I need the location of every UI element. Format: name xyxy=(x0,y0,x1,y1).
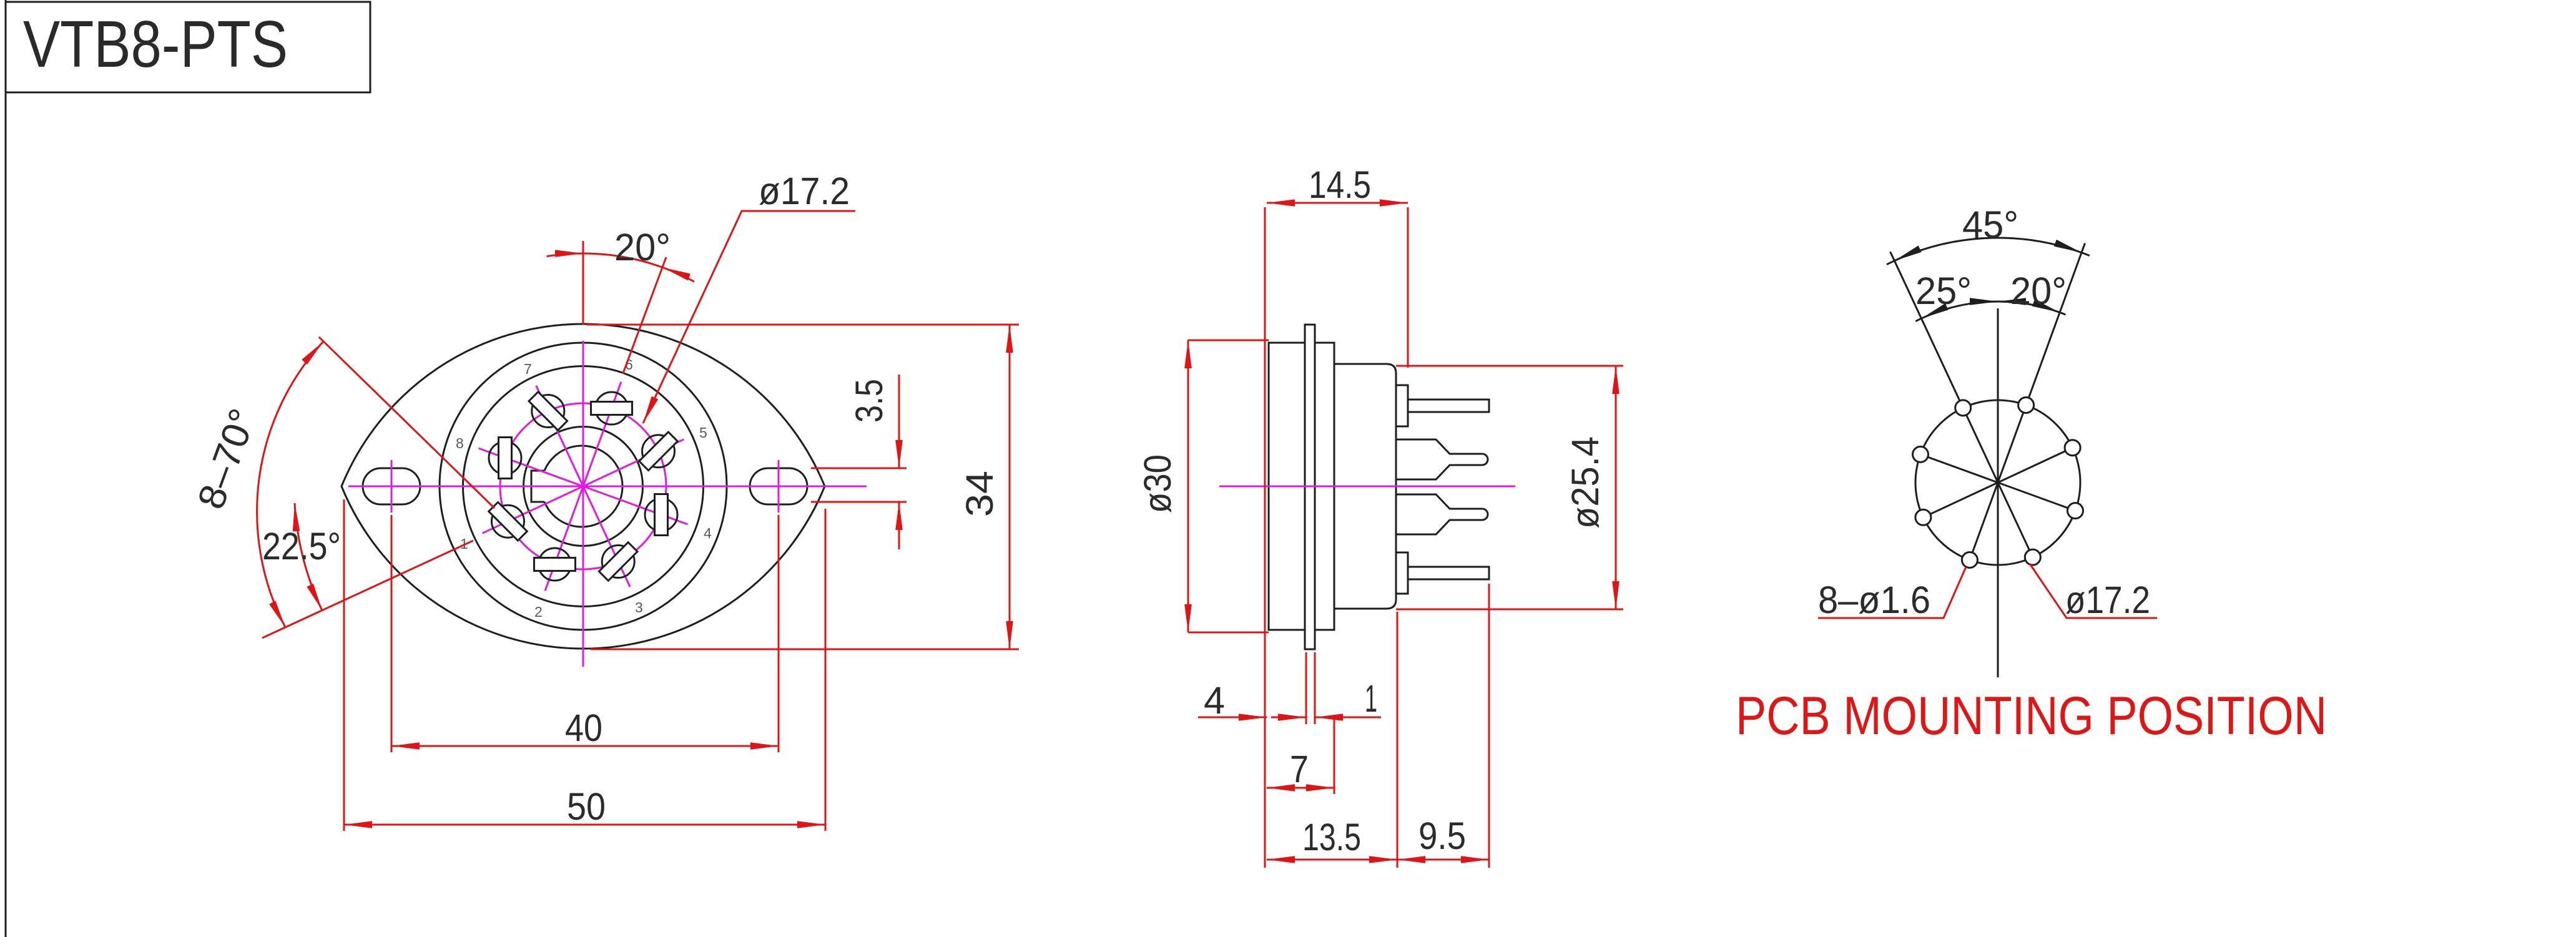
flange outline xyxy=(342,324,825,649)
mounting slot right xyxy=(750,468,807,504)
dim 22.5deg arc xyxy=(295,503,322,611)
dim 34 extension line bottom xyxy=(591,649,1019,650)
svg-text:ø30: ø30 xyxy=(1136,454,1179,513)
title box xyxy=(6,2,370,92)
plate extension line left xyxy=(1305,652,1307,724)
arc arrows at vertical xyxy=(1982,302,1998,302)
svg-text:25°: 25° xyxy=(1915,270,1972,312)
dim 20deg angled ray through pin 6 xyxy=(623,257,666,374)
pin D rod xyxy=(1408,567,1489,579)
border frame line xyxy=(5,0,7,937)
pin 5 xyxy=(632,425,684,477)
hole 2 xyxy=(1962,552,1977,568)
pin 1 xyxy=(482,495,534,547)
svg-text:ø17.2: ø17.2 xyxy=(759,170,850,212)
dim 13.5/9.5 extension right xyxy=(1488,584,1490,868)
magenta horizontal centerline xyxy=(348,486,867,488)
dim 50 line xyxy=(344,824,825,826)
leader o17.2 xyxy=(643,211,855,423)
pin D base xyxy=(1396,552,1408,594)
dim 8-70deg upper ray xyxy=(319,337,494,508)
svg-text:4: 4 xyxy=(1204,679,1225,722)
dim 14.5 extension right xyxy=(1407,207,1409,368)
svg-text:VTB8-PTS: VTB8-PTS xyxy=(23,7,288,81)
dim o30 extension top xyxy=(1188,340,1269,341)
dim 9.5 line xyxy=(1397,859,1489,861)
dim 4 line xyxy=(1198,717,1267,719)
svg-text:ø17.2: ø17.2 xyxy=(2065,579,2150,621)
magenta slot centerline left xyxy=(391,460,393,513)
svg-text:20°: 20° xyxy=(2010,270,2067,312)
pin 2 xyxy=(534,548,576,581)
dim 3.5 leader top xyxy=(898,375,900,468)
dim 13.5 line xyxy=(1267,859,1397,861)
pin circle xyxy=(1915,400,2080,565)
pin 4 xyxy=(645,494,677,536)
dim o25.4 line xyxy=(1615,366,1617,609)
pin C lug xyxy=(1396,494,1488,534)
dim 40 line xyxy=(391,745,779,747)
radial lines xyxy=(1920,448,2075,560)
dim 7 extension right xyxy=(1334,718,1335,794)
socket body circle o30 xyxy=(440,343,727,630)
svg-text:8: 8 xyxy=(456,435,464,451)
dim 50 extension line left xyxy=(343,499,345,831)
svg-text:4: 4 xyxy=(704,525,712,541)
dim 8-70deg arc xyxy=(257,341,323,627)
dim 4 arrow to plate xyxy=(1271,717,1306,719)
dim o30 line xyxy=(1187,340,1189,632)
dim 14.5 extension left (shared tall) xyxy=(1264,207,1266,868)
vertical centerline xyxy=(1997,308,1999,677)
svg-text:13.5: 13.5 xyxy=(1302,816,1361,858)
plate extension line right xyxy=(1314,652,1316,724)
dim 34 line xyxy=(1009,325,1011,649)
dim 3.5 projection line bottom xyxy=(811,501,907,503)
dim 1 line xyxy=(1315,717,1381,719)
pin A base xyxy=(1396,385,1408,426)
dim 8-70deg lower ray xyxy=(262,541,473,638)
svg-text:20°: 20° xyxy=(614,226,671,268)
svg-text:45°: 45° xyxy=(1962,204,2018,246)
arc 25-20deg xyxy=(1915,318,1921,321)
svg-text:22.5°: 22.5° xyxy=(262,525,341,567)
hole 6 xyxy=(2018,398,2034,413)
hole 7 xyxy=(1955,400,1971,416)
dim 3.5 leader bottom xyxy=(898,502,900,549)
svg-text:34: 34 xyxy=(958,471,1001,517)
svg-text:ø25.4: ø25.4 xyxy=(1564,436,1606,529)
dim 13.5/9.5 extension middle xyxy=(1397,612,1399,868)
hole 4 xyxy=(2068,503,2083,519)
leader o17.2 pcb xyxy=(2030,564,2157,618)
ray 25deg xyxy=(1890,252,1998,483)
dim 3.5 projection line top xyxy=(811,468,907,469)
dim 50 extension line right xyxy=(825,509,827,831)
dim 40 extension line right xyxy=(778,515,780,752)
leader 8-o1.6 xyxy=(1818,567,1966,618)
body section right of plate xyxy=(1315,343,1334,630)
dim 14.5 line xyxy=(1267,202,1408,204)
svg-text:2: 2 xyxy=(534,604,543,620)
svg-text:50: 50 xyxy=(567,785,606,828)
svg-text:5: 5 xyxy=(699,424,707,441)
pin B lug xyxy=(1396,439,1488,479)
svg-text:7: 7 xyxy=(1290,748,1309,790)
hole 1 xyxy=(1915,509,1931,525)
ray 20deg xyxy=(1998,243,2085,483)
hole 3 xyxy=(2025,549,2040,565)
pin A rod xyxy=(1408,400,1489,412)
pin 7 xyxy=(522,385,574,437)
svg-text:9.5: 9.5 xyxy=(1418,815,1466,857)
svg-text:1: 1 xyxy=(1365,677,1377,720)
mounting slot left xyxy=(363,468,420,504)
dim 20deg arc xyxy=(547,253,583,257)
magenta centerline side view xyxy=(1219,486,1515,488)
svg-text:40: 40 xyxy=(565,707,602,749)
dim 7 line xyxy=(1267,787,1334,789)
dim o25.4 extension top xyxy=(1396,365,1623,367)
svg-text:8–ø1.6: 8–ø1.6 xyxy=(1818,579,1930,621)
magenta vertical centerline xyxy=(583,341,584,667)
hole 8 xyxy=(1913,446,1929,462)
dim 34 extension line top xyxy=(587,324,1019,326)
magenta pin circle o17.2 xyxy=(500,403,666,569)
pin 6 xyxy=(591,392,632,424)
magenta slot centerline right xyxy=(778,460,780,513)
svg-text:7: 7 xyxy=(524,361,532,377)
dim 20deg vertical reference line xyxy=(583,241,584,325)
inner ring circle xyxy=(463,366,704,607)
center hole with keyway xyxy=(531,446,622,527)
dim o30 extension bottom xyxy=(1188,632,1269,634)
magenta radial lines to pins xyxy=(479,382,688,591)
svg-text:3.5: 3.5 xyxy=(848,379,890,423)
mounting flange plate xyxy=(1305,325,1315,649)
svg-text:PCB MOUNTING POSITION: PCB MOUNTING POSITION xyxy=(1736,686,2327,746)
center boss circle xyxy=(524,427,643,546)
pin side body o25.4 xyxy=(1334,364,1396,609)
dim o25.4 extension bottom xyxy=(1396,609,1623,611)
hole 5 xyxy=(2065,440,2080,456)
svg-text:3: 3 xyxy=(635,599,643,616)
body cylinder o30 xyxy=(1269,343,1305,630)
dim 40 extension line left xyxy=(391,515,393,752)
svg-text:14.5: 14.5 xyxy=(1309,164,1371,206)
pin 3 xyxy=(592,536,644,587)
pin 8 xyxy=(489,438,521,479)
arc 45deg xyxy=(1887,261,1894,265)
